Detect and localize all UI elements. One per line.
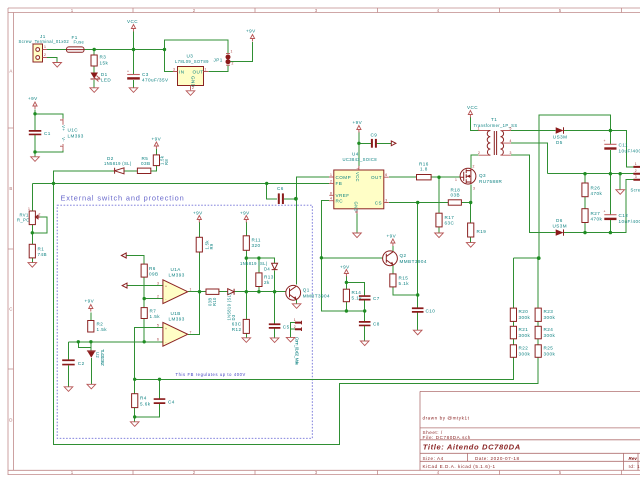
connector J3 Conn_01x02_Male [294, 318, 302, 366]
junction: +9V at R14 top [345, 281, 348, 284]
svg-text:UC3843_SOIC8: UC3843_SOIC8 [343, 157, 378, 162]
diode D6 US3M [553, 218, 568, 236]
svg-text:+: + [165, 285, 167, 289]
svg-text:Q1: Q1 [303, 288, 310, 293]
svg-text:320: 320 [252, 243, 261, 248]
junction: CS filter node at R15 [416, 293, 419, 296]
capacitor C4 [154, 398, 175, 404]
ground below C10 [413, 330, 422, 335]
capacitor C12 10uF/400V [604, 210, 640, 225]
wire: +9V to U1C and C1 [35, 110, 63, 157]
svg-text:Conn_01x02_Male: Conn_01x02_Male [295, 337, 300, 366]
svg-text:09B: 09B [149, 271, 159, 276]
junction: Q1 base node at C5 [273, 290, 276, 293]
ground below R4 C4 [130, 422, 139, 427]
wire: T1 pin4 to mid rail [511, 143, 634, 174]
wire: R2 stub [90, 312, 92, 320]
svg-text:3: 3 [510, 151, 512, 155]
svg-text:Q3: Q3 [479, 173, 486, 178]
svg-text:+: + [127, 70, 129, 74]
svg-text:470uF/35V: 470uF/35V [142, 78, 169, 83]
wire: node to U3 IN [165, 50, 173, 72]
resistor R14 [343, 289, 362, 302]
resistor R27 [582, 209, 603, 223]
svg-text:drawn by @mtyk1t: drawn by @mtyk1t [423, 415, 470, 420]
resistor R23 [535, 308, 555, 321]
svg-text:R20: R20 [519, 309, 529, 314]
resistor R8 [153, 155, 169, 166]
wire: R6 flag feed [126, 256, 144, 265]
junction: mid rail at C11 C12 [609, 172, 612, 175]
resistor R5 [137, 156, 150, 174]
wire: Q2 collector from +9V [392, 246, 394, 251]
svg-text:6: 6 [385, 173, 387, 177]
svg-text:A: A [9, 68, 12, 73]
wire: R23 column [537, 258, 539, 345]
flag at C9 [391, 141, 396, 146]
wire: reference line y341.8 [69, 342, 163, 387]
junction: R13 top node [257, 256, 260, 259]
svg-text:-: - [165, 340, 166, 344]
junction: V- rail at C12 [609, 231, 612, 234]
ground below U4 [353, 233, 362, 238]
ground below R17 [435, 233, 444, 238]
svg-text:C3: C3 [142, 72, 149, 77]
svg-text:LM393: LM393 [169, 273, 185, 278]
svg-text:R6: R6 [149, 266, 156, 271]
resistor R21 [510, 326, 530, 339]
svg-text:8: 8 [59, 119, 63, 121]
resistor R6 [141, 264, 158, 277]
svg-text:U4: U4 [352, 152, 359, 157]
wire: R3/D1 branch [93, 50, 95, 88]
svg-text:C8: C8 [373, 322, 380, 327]
svg-text:3: 3 [635, 175, 637, 179]
svg-text:1N5819 (SL): 1N5819 (SL) [104, 161, 132, 166]
svg-text:1: 1 [190, 288, 192, 292]
svg-text:R22: R22 [519, 346, 529, 351]
svg-text:JP1: JP1 [214, 58, 223, 63]
resistor R9 [196, 237, 214, 252]
resistor R22 [510, 345, 530, 358]
svg-text:1: 1 [205, 68, 207, 72]
transistor Q1 MMBT3904 [286, 285, 330, 300]
wire: comparator output bus [188, 292, 286, 335]
flag at U1A plus input [122, 283, 127, 288]
svg-text:+9V: +9V [193, 211, 203, 216]
wire: OUT to R16 to Q3 gate [389, 176, 461, 178]
svg-text:Rev: Rev [629, 456, 638, 461]
svg-text:3: 3 [157, 282, 159, 286]
svg-text:R7: R7 [150, 309, 157, 314]
wire: AC input main line [47, 49, 165, 51]
wire: R9 column [198, 222, 200, 292]
ground below U2 [87, 384, 96, 389]
ground below C8 [360, 341, 369, 346]
wire: RC line down to timing network [321, 201, 364, 311]
svg-text:R25: R25 [544, 346, 554, 351]
wire: R13 stubs [258, 258, 260, 292]
svg-text:VCC: VCC [467, 105, 478, 110]
svg-text:63C: 63C [445, 221, 455, 226]
junction: V+ divider top node [537, 256, 541, 260]
connector J1 Screw_Terminal_01x02 [19, 34, 70, 62]
junction: R7 bottom node [143, 340, 146, 343]
capacitor C6 [277, 186, 284, 204]
wire: J3 connector grounding [291, 323, 295, 338]
power +9V (above R11) [240, 211, 250, 223]
svg-text:R8: R8 [164, 159, 169, 165]
wire: +9V R14 to C7 top [346, 276, 364, 311]
svg-text:D4: D4 [264, 267, 270, 272]
svg-text:300k: 300k [519, 351, 531, 356]
svg-text:R9: R9 [209, 243, 214, 249]
svg-text:V-: V- [61, 137, 66, 142]
wire: output mid ground stub [619, 174, 621, 190]
wire: COMP line and Q1 collector column [297, 177, 330, 285]
svg-text:4: 4 [330, 197, 332, 201]
svg-text:VCC: VCC [127, 19, 138, 24]
svg-text:Date: 2020-07-18: Date: 2020-07-18 [475, 456, 520, 461]
ground below C5 [270, 338, 279, 343]
junction: U1B plus input node [133, 378, 136, 381]
diode D2 1N5819 (SL) [104, 156, 132, 174]
ground at J1 pin2 [53, 63, 62, 68]
junction: U4 VCC at C9 [357, 142, 360, 145]
svg-text:R26: R26 [591, 186, 601, 191]
svg-text:VCC: VCC [355, 172, 360, 182]
power +9V (above R14) [340, 265, 350, 277]
resistor R13 [256, 273, 274, 287]
power +9V (above U4) [353, 120, 363, 133]
junction: C4 top node [158, 378, 161, 381]
wire: C5 branch [274, 292, 276, 338]
svg-text:C10: C10 [426, 309, 436, 314]
power +9V (above Q2) [387, 234, 397, 247]
power +9V (above U1C) [28, 96, 38, 109]
wire: R6-R7 column and U1A minus input [144, 277, 163, 342]
svg-text:B: B [9, 186, 12, 191]
svg-text:2: 2 [635, 169, 637, 173]
svg-text:2: 2 [232, 62, 234, 66]
svg-text:U3: U3 [187, 54, 194, 59]
svg-text:D3: D3 [231, 314, 236, 320]
junction: R4 C4 ground node [133, 415, 136, 418]
svg-text:MMBT3904: MMBT3904 [303, 294, 330, 299]
svg-text:R10: R10 [212, 297, 217, 306]
wire: U1A plus input [127, 285, 163, 287]
junction: TL431 ref node [77, 340, 80, 343]
wire: Q3 source and R19 [470, 184, 472, 242]
svg-text:2: 2 [330, 179, 332, 183]
wire: R25 feedback loop to FB [54, 183, 539, 444]
svg-text:CS: CS [375, 200, 382, 205]
svg-text:C4: C4 [168, 400, 175, 405]
svg-text:LED: LED [101, 78, 112, 83]
capacitor C8 [359, 321, 380, 327]
dashed box: external switch section [57, 205, 312, 438]
svg-text:470k: 470k [591, 217, 603, 222]
svg-text:R19: R19 [477, 229, 487, 234]
svg-text:6: 6 [157, 338, 159, 342]
svg-text:74B: 74B [38, 252, 48, 257]
junction: VCC node [132, 48, 135, 51]
svg-text:Screw_Terminal_01x02: Screw_Terminal_01x02 [19, 39, 70, 44]
svg-text:2k: 2k [264, 280, 270, 285]
fuse F1 [67, 35, 85, 52]
resistor R25 [535, 345, 555, 358]
resistor R11 [243, 236, 261, 251]
svg-text:U1A: U1A [171, 267, 182, 272]
wire: VCC node to C3 and VCC symbol [133, 32, 135, 88]
wire: bypass over U3 to JP1 [165, 40, 229, 54]
svg-text:2: 2 [157, 295, 159, 299]
wire: U1B plus input line from divider [135, 327, 163, 379]
svg-text:US3M: US3M [553, 224, 568, 229]
wire: R20 column [512, 258, 514, 345]
capacitor C5 [269, 323, 290, 329]
svg-text:Size: A4: Size: A4 [423, 456, 444, 461]
svg-text:+9V: +9V [246, 29, 256, 34]
regulator U3 L78L09_SOT89 [173, 54, 209, 91]
capacitor C2 [62, 359, 84, 366]
resistor R10 [206, 289, 219, 306]
controller U4 UC3843_SOIC8 [329, 152, 389, 214]
wire: C6 compensation branch [267, 183, 296, 198]
svg-text:1: 1 [44, 45, 46, 49]
resistor R26 [582, 183, 603, 197]
svg-text:MMBT3904: MMBT3904 [400, 259, 427, 264]
svg-text:R17: R17 [445, 215, 455, 220]
svg-text:Scre: Scre [631, 188, 640, 193]
svg-text:D1: D1 [101, 72, 108, 77]
LED D1 [91, 72, 112, 83]
wire: RC node to Q2 base [321, 257, 383, 259]
svg-text:1: 1 [231, 50, 233, 54]
svg-text:R1: R1 [38, 247, 45, 252]
svg-text:300k: 300k [544, 333, 556, 338]
svg-text:C9: C9 [371, 133, 378, 138]
svg-text:D6: D6 [556, 218, 563, 223]
svg-text:LM393: LM393 [68, 133, 84, 138]
wire: T1 pin3 to D6 to V- rail [511, 155, 634, 232]
svg-text:COMP: COMP [336, 175, 352, 180]
wire: R17 branch [438, 177, 440, 233]
svg-text:5.6k: 5.6k [140, 402, 151, 407]
wire: FB long line [32, 183, 329, 210]
capacitor C1 [29, 130, 51, 136]
svg-text:+9V: +9V [387, 234, 397, 239]
svg-text:+: + [604, 139, 606, 143]
svg-text:03B: 03B [451, 193, 461, 198]
wire: C12 stubs [609, 174, 611, 233]
svg-text:3: 3 [473, 187, 475, 191]
ground below R19 [466, 243, 475, 248]
capacitor C10 [412, 307, 435, 313]
svg-text:1.8: 1.8 [420, 167, 428, 172]
resistor R12 [232, 319, 250, 333]
svg-text:External switch and protection: External switch and protection [61, 194, 185, 203]
junction: mid rail at R26 [583, 172, 586, 175]
ground below J3 [286, 337, 295, 342]
svg-text:IN: IN [179, 69, 185, 74]
svg-text:1: 1 [455, 178, 457, 182]
svg-text:FB: FB [336, 181, 343, 186]
svg-text:R15: R15 [399, 276, 409, 281]
capacitor C9 [371, 133, 378, 148]
junction: U3 input node [163, 48, 166, 51]
resistor R16 [417, 162, 432, 180]
svg-text:10uF/400: 10uF/400 [619, 149, 640, 154]
svg-text:C12: C12 [619, 213, 629, 218]
wire: U4 VCC column and C9 [359, 132, 391, 166]
svg-text:2: 2 [192, 86, 194, 90]
svg-text:7: 7 [356, 168, 360, 170]
svg-text:TL431DBZ: TL431DBZ [100, 349, 105, 366]
junction: RC node at Q2 base [320, 256, 323, 259]
svg-text:5.1k: 5.1k [399, 281, 410, 286]
junction: gate node at R17 [437, 176, 440, 179]
power +9V (above R2) [85, 299, 95, 312]
svg-text:8: 8 [330, 191, 332, 195]
svg-text:15k: 15k [100, 61, 109, 66]
svg-text:1.5k: 1.5k [150, 314, 161, 319]
svg-text:3: 3 [385, 199, 387, 203]
svg-text:10uF/400: 10uF/400 [619, 219, 640, 224]
svg-text:C7: C7 [373, 296, 380, 301]
junction: R11 bottom node [245, 256, 248, 259]
svg-text:This FB regulates up to 400V: This FB regulates up to 400V [176, 372, 246, 377]
jumper JP1 [214, 50, 234, 66]
svg-text:R21: R21 [519, 327, 529, 332]
title block [420, 391, 640, 470]
op-amp U1A LM393 [157, 267, 192, 304]
wire: R13/D4 tie at y258 [246, 258, 274, 292]
svg-text:300k: 300k [519, 333, 531, 338]
svg-text:File: DC780DA.sch: File: DC780DA.sch [423, 435, 471, 440]
svg-text:1: 1 [478, 126, 480, 130]
junction: C7 C8 node [363, 309, 366, 312]
svg-text:+9V: +9V [85, 299, 95, 304]
svg-text:+9V: +9V [340, 265, 350, 270]
capacitor C7 [359, 295, 380, 301]
svg-text:C11: C11 [619, 143, 628, 148]
capacitor C11 10uF/400V [604, 139, 640, 154]
wire: VCC to T1 pin1 [470, 117, 478, 131]
junction: V- rail at R27 [583, 231, 586, 234]
ground below Q1 emitter [292, 304, 301, 309]
ground below D1 [90, 88, 99, 93]
wire: C11 stubs [609, 131, 611, 174]
svg-text:R4: R4 [140, 396, 147, 401]
wire: T1 pin5 to D5 to C11 [511, 130, 611, 132]
svg-text:RU7588R: RU7588R [479, 179, 503, 184]
ground below C3 [129, 88, 138, 93]
svg-text:1: 1 [28, 207, 30, 211]
ground below R1 [28, 263, 37, 268]
svg-text:Fuse: Fuse [74, 40, 85, 45]
svg-text:C1: C1 [44, 131, 51, 136]
svg-text:Q2: Q2 [400, 253, 407, 258]
svg-text:300k: 300k [544, 315, 556, 320]
wire: FB node up through D2 R5 R8 [54, 149, 157, 184]
svg-text:OUT: OUT [371, 175, 382, 180]
svg-text:5: 5 [510, 126, 512, 130]
power +9V (above R8) [152, 137, 162, 149]
junction: COMP line at C6 [294, 197, 298, 201]
junction: R3 tap on AC line [93, 48, 96, 51]
shunt reference U2 TL431DBZ [87, 349, 105, 366]
op-amp U1C LM393 power unit [59, 119, 84, 151]
resistor R4 [132, 394, 151, 408]
power VCC (left) [127, 19, 138, 32]
svg-text:U1C: U1C [68, 128, 79, 133]
svg-text:4: 4 [510, 139, 512, 143]
resistor R19 [468, 223, 487, 237]
svg-text:R12: R12 [232, 327, 242, 332]
junction: U1A minus input node [143, 297, 146, 300]
svg-text:+9V: +9V [240, 211, 250, 216]
resistor R15 [390, 274, 409, 287]
svg-text:OUT: OUT [193, 69, 204, 74]
capacitor C3 470uF/35V [127, 70, 169, 83]
svg-text:1N5819 (SL): 1N5819 (SL) [240, 261, 268, 266]
potentiometer RV1 R_POT [17, 207, 41, 225]
transistor Q2 MMBT3904 [383, 251, 427, 266]
svg-text:R27: R27 [591, 211, 601, 216]
svg-text:1: 1 [635, 162, 637, 166]
svg-text:L78L09_SOT89: L78L09_SOT89 [175, 59, 209, 64]
wire: R4 C4 branch [135, 379, 160, 421]
svg-text:C: C [9, 307, 12, 312]
junction: FB node at D2 branch [52, 182, 55, 185]
svg-text:1.5k: 1.5k [97, 327, 108, 332]
junction: R13 bottom on output bus [257, 290, 260, 293]
svg-text:R13: R13 [264, 275, 274, 280]
wire: Q1 emitter ground stub [296, 299, 298, 303]
wire: R22 return to U1B [135, 357, 514, 379]
svg-text:R14: R14 [352, 290, 362, 295]
flag above R6 [121, 253, 126, 258]
wire: J1 pin2 to ground [47, 58, 57, 63]
svg-text:2: 2 [44, 53, 46, 57]
svg-text:5: 5 [157, 323, 159, 327]
junction: R2 bottom node [89, 340, 92, 343]
svg-text:300k: 300k [519, 315, 531, 320]
wire: RV1 wiper loop and R1 [32, 217, 47, 263]
svg-text:+9V: +9V [353, 120, 363, 125]
svg-text:R11: R11 [252, 238, 261, 243]
ground below C2 [64, 387, 73, 392]
svg-text:C5: C5 [283, 325, 290, 330]
ground below U3 [186, 91, 195, 96]
connector J2 Screw_Terminal_01x03 [631, 162, 640, 193]
svg-text:R24: R24 [544, 327, 554, 332]
svg-text:C6: C6 [277, 186, 284, 191]
svg-text:+9V: +9V [28, 96, 38, 101]
mosfet Q3 RU7588R [455, 165, 503, 191]
svg-text:2: 2 [39, 213, 41, 217]
diode D3 1N5819 (SL) [227, 289, 237, 321]
wire: R26 R27 bleeder stubs [584, 174, 586, 233]
wire: Q3 drain to transformer [471, 155, 479, 168]
junction: FB line at C6 branch [265, 182, 268, 185]
resistor R18 [448, 188, 461, 206]
svg-text:LM393: LM393 [169, 317, 185, 322]
svg-text:1: 1 [330, 173, 332, 177]
junction: R14 bottom node [345, 309, 348, 312]
svg-text:Title: Aitendo DC780DA: Title: Aitendo DC780DA [423, 443, 521, 452]
